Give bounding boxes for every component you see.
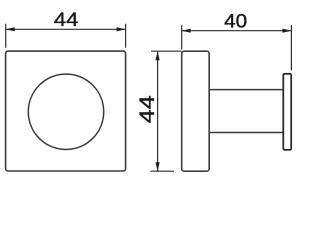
side view plate bbox=[182, 51, 210, 171]
svg-text:44: 44 bbox=[136, 95, 159, 123]
dim 40: left extension line bbox=[181, 25, 183, 49]
dim 40: dimension line bbox=[182, 30, 292, 32]
dim 44 side: top extension line bbox=[151, 50, 182, 52]
dim 40: right extension line bbox=[290, 25, 292, 70]
dim 40: right arrow bbox=[282, 29, 291, 33]
dim 44 side: top arrow bbox=[156, 51, 160, 60]
svg-text:40: 40 bbox=[224, 11, 247, 32]
side view wall flange bbox=[283, 74, 291, 150]
dim 44 top: dimension line bbox=[6, 28, 126, 30]
dim 40: left arrow bbox=[182, 29, 191, 33]
dim 44 top: right arrow bbox=[117, 27, 126, 31]
dim 44 side: dimension line bbox=[157, 51, 159, 171]
dim 44 top: left extension line bbox=[5, 24, 7, 48]
side view stem top line bbox=[210, 89, 284, 91]
front view knob circle bbox=[28, 74, 103, 149]
side view stem bottom line bbox=[210, 132, 284, 134]
dim 44 side: bottom extension line bbox=[150, 170, 174, 172]
svg-text:44: 44 bbox=[54, 10, 79, 31]
dim 44 top: left arrow bbox=[6, 27, 15, 31]
front view square plate bbox=[6, 51, 126, 171]
dim 44 top: right extension line bbox=[125, 24, 127, 48]
dim 44 side: bottom arrow bbox=[156, 162, 160, 171]
